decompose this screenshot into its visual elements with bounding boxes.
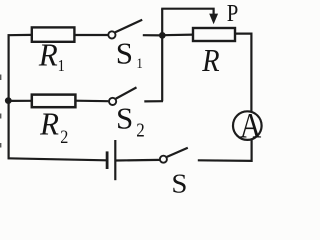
wire rheostat to right corner [235,34,252,112]
wire junction to R2 [8,100,32,102]
node junction R2/left bus [5,97,12,104]
wire S1 right terminal to node [143,34,163,36]
switch S2 blade [116,87,137,98]
scan artifact marks on left edge [0,75,2,148]
wire top rail to potentiometer slider [161,9,213,16]
switch S2 pivot [109,98,116,105]
wire left vertical bus [8,34,10,159]
svg-text:S: S [171,169,187,194]
svg-text:1: 1 [58,57,65,75]
svg-text:1: 1 [136,55,142,72]
wire battery to bottom-left corner [8,158,106,160]
battery negative plate [106,151,109,169]
wire S pivot to battery [116,159,160,162]
switch S blade [167,148,188,157]
battery positive plate [114,140,116,180]
switch S1 pivot [108,31,115,38]
switch S1 blade [115,20,142,32]
svg-text:R: R [39,106,59,141]
wire R1 to S1 [75,34,108,36]
resistor R2 [32,95,76,108]
ammeter A body [233,111,262,140]
resistor R1 [32,27,75,41]
wire S2 right terminal to bus [144,100,163,102]
svg-text:S: S [116,101,133,136]
svg-text:2: 2 [136,119,145,142]
wire R2 to S2 [75,100,108,103]
svg-text:R: R [201,44,219,79]
wire node to rheostat R [163,33,194,36]
switch S pivot [160,156,167,163]
wire middle vertical bus [161,9,163,102]
svg-text:P: P [227,0,239,26]
svg-text:S: S [116,36,133,71]
svg-text:2: 2 [60,126,68,148]
rheostat R body [193,28,235,41]
wire ammeter to bottom rail [198,140,252,161]
node junction S1/bus [159,32,166,39]
svg-text:R: R [38,37,58,72]
svg-text:A: A [240,107,262,146]
slider arrow P head [209,14,218,25]
wire top-left horizontal (to R1) [8,34,32,36]
